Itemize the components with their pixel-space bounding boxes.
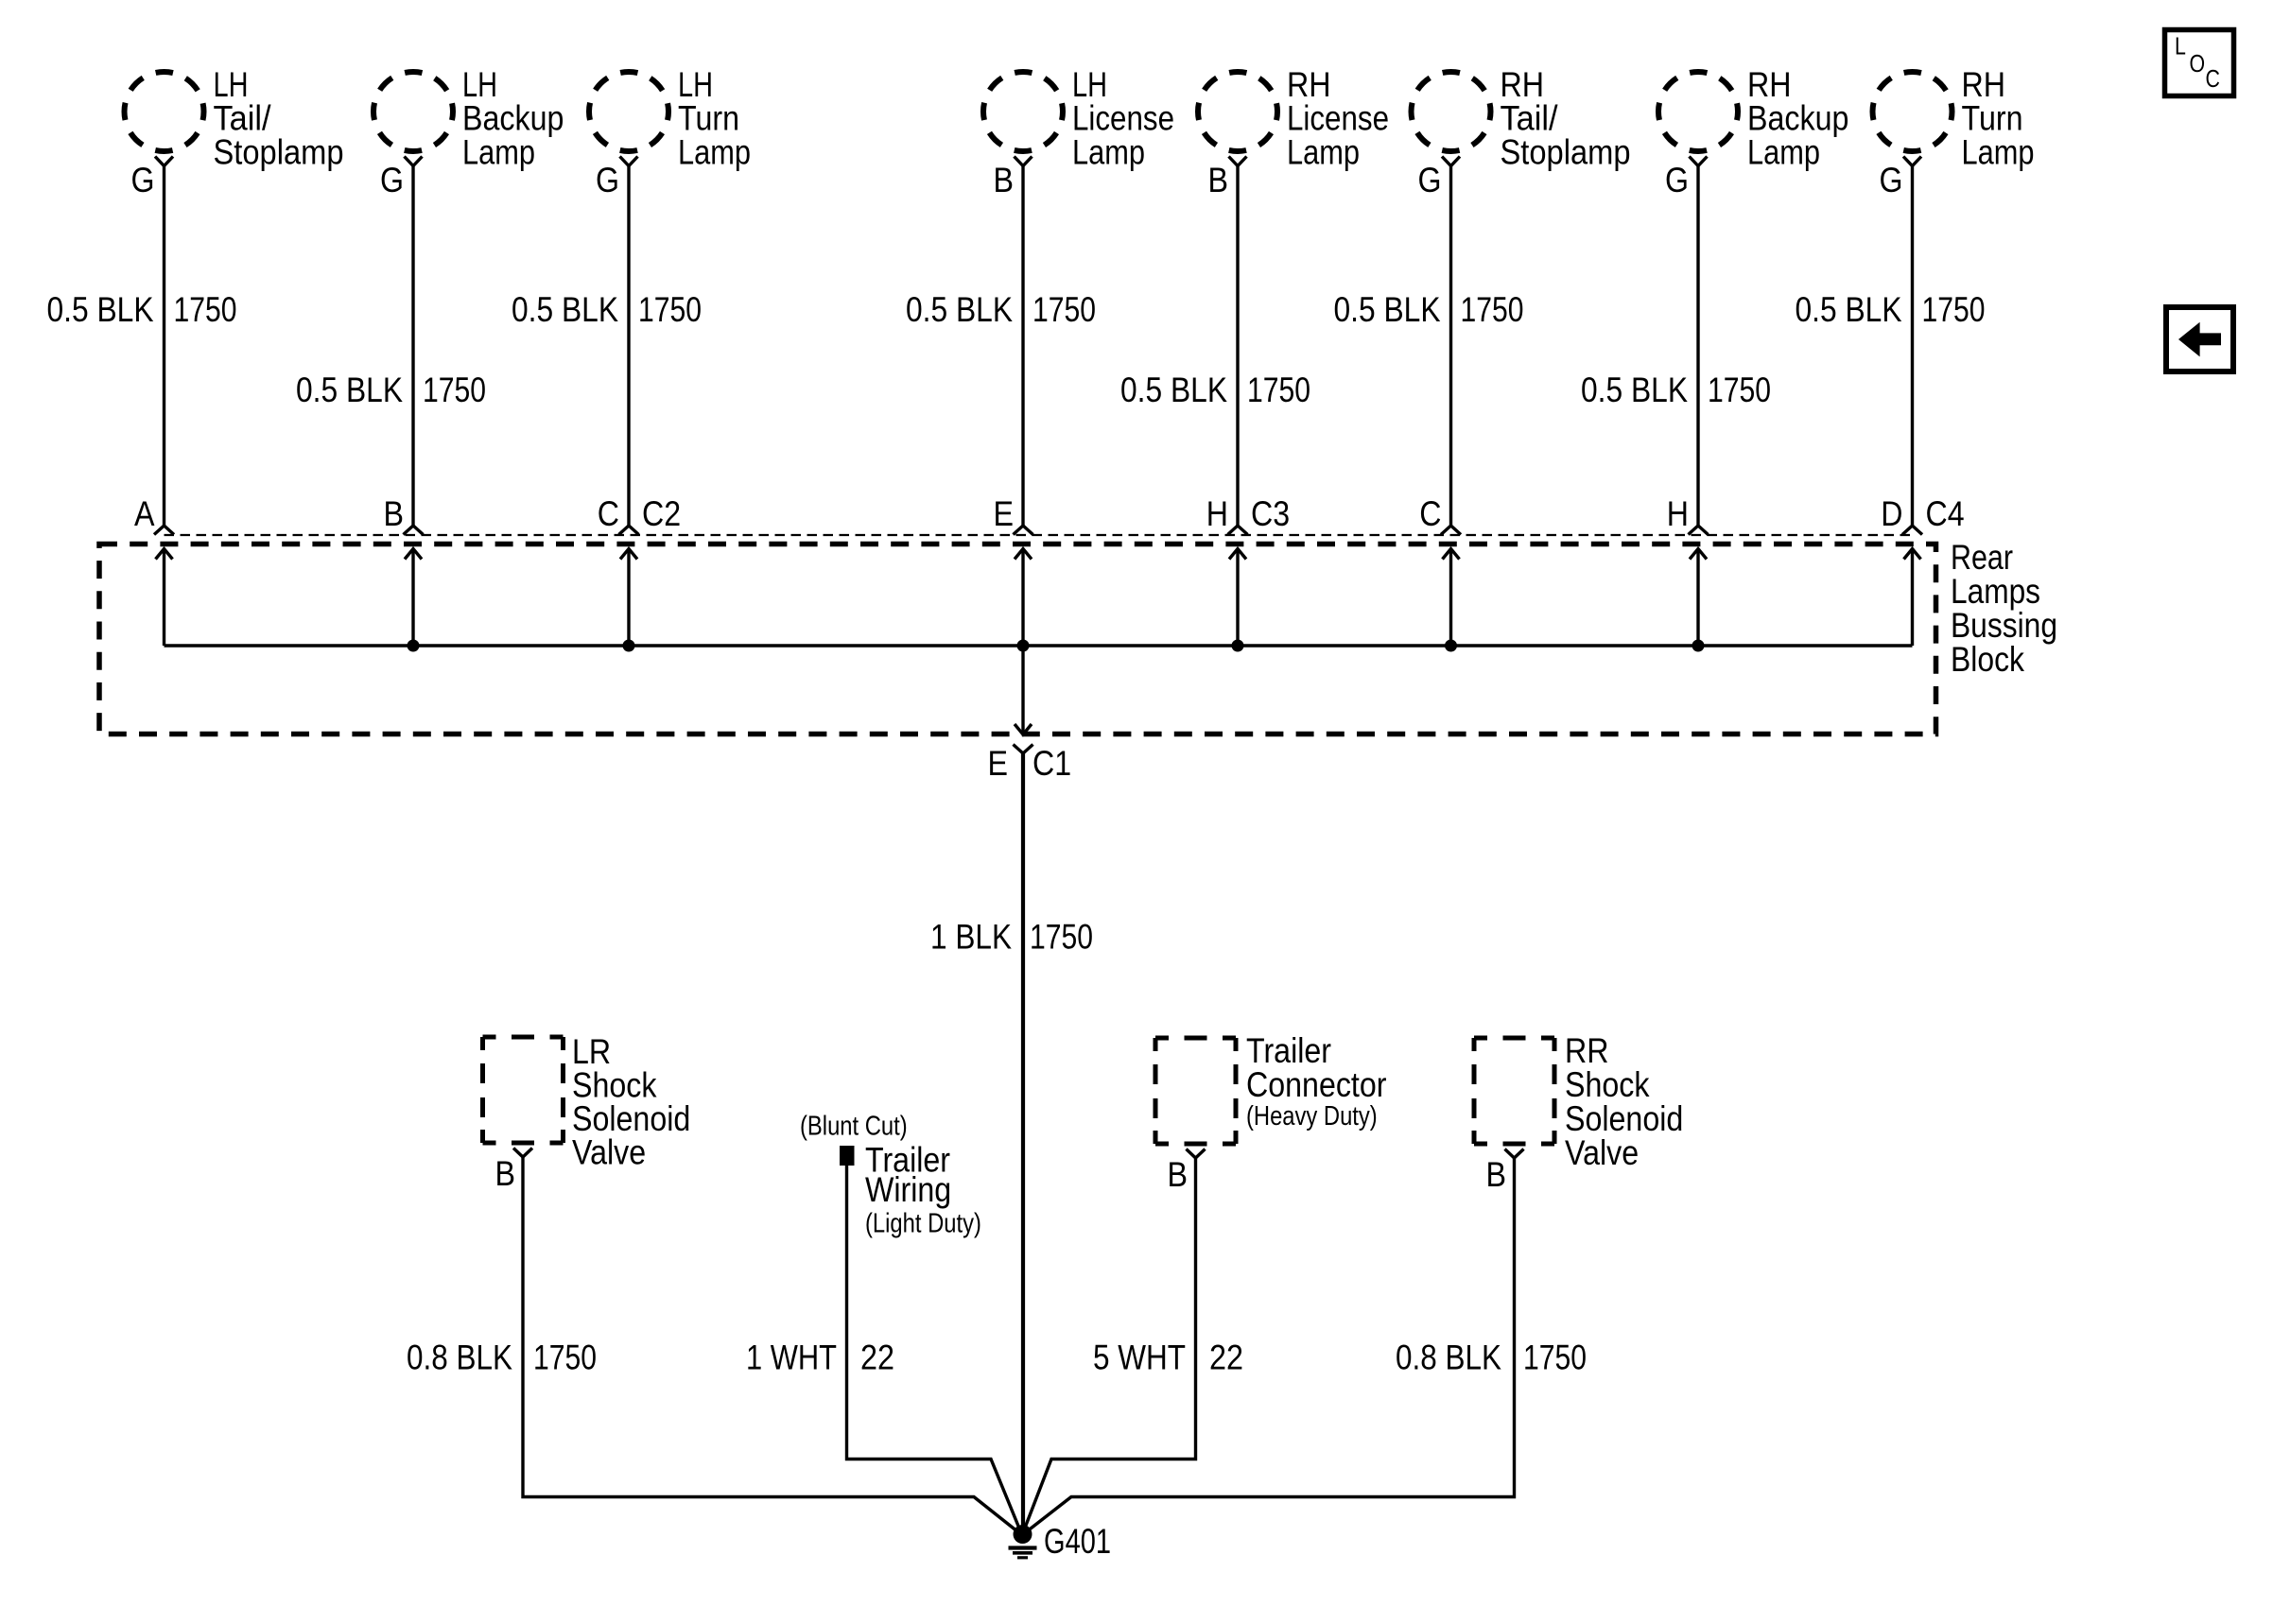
wire 0.5 BLK 1750 from RH Turn Lamp to bussing block pin D [1911, 166, 1914, 527]
pin letter G of RH Backup Lamp [1665, 161, 1689, 199]
lamp connector circle: LH Backup Lamp [373, 72, 453, 151]
svg-text:Lamp: Lamp [1287, 132, 1360, 171]
svg-text:H: H [1206, 494, 1228, 533]
wire 5 WHT 22 from Trailer Connector to G401 [1022, 1158, 1196, 1535]
wire 0.8 BLK 1750 from RR Shock to G401 [1022, 1158, 1515, 1535]
svg-text:B: B [495, 1154, 516, 1193]
male terminal arrow at block pin B [405, 549, 422, 647]
wire 0.5 BLK 1750 from LH Turn Lamp to bussing block pin C [627, 166, 630, 527]
svg-text:B: B [1486, 1155, 1507, 1194]
svg-text:1 WHT: 1 WHT [746, 1339, 837, 1377]
svg-text:0.8 BLK: 0.8 BLK [407, 1339, 512, 1377]
label: RR Shock Solenoid Valve [1565, 1031, 1683, 1172]
svg-text:C2: C2 [642, 494, 681, 533]
connector interface dashed line (C2/C3/C4 mating face) [165, 534, 1913, 536]
male terminal arrow at block pin H [1229, 549, 1246, 647]
pin letter G of LH Tail/Stoplamp [131, 161, 155, 199]
label: Rear Lamps Bussing Block [1951, 538, 2057, 679]
connector designator C3 [1251, 494, 1290, 533]
svg-text:1750: 1750 [1523, 1339, 1587, 1377]
svg-text:0.5 BLK: 0.5 BLK [906, 290, 1013, 329]
svg-text:(Blunt Cut): (Blunt Cut) [800, 1112, 908, 1142]
svg-text:Valve: Valve [572, 1133, 646, 1172]
svg-text:G: G [1880, 161, 1903, 199]
back-arrow navigation box [2166, 307, 2233, 371]
bussing block pin letter E [994, 494, 1015, 533]
bussing block pin letter H [1667, 494, 1689, 533]
pin terminal (female V) at RH License Lamp [1229, 157, 1247, 166]
svg-text:0.5 BLK: 0.5 BLK [1120, 371, 1227, 409]
ground symbol G401 [1009, 1548, 1037, 1558]
svg-text:H: H [1667, 494, 1689, 533]
pin letter B of LR Shock Solenoid Valve [495, 1154, 516, 1193]
svg-text:Lamp: Lamp [1072, 132, 1145, 171]
svg-text:1750: 1750 [174, 290, 237, 329]
junction dot on bus at pin C [623, 640, 635, 652]
svg-text:C: C [2206, 64, 2220, 93]
svg-text:G401: G401 [1044, 1522, 1111, 1561]
svg-text:Valve: Valve [1565, 1133, 1639, 1172]
svg-text:5 WHT: 5 WHT [1093, 1339, 1186, 1377]
bussing block pin letter C [598, 494, 619, 533]
svg-text:Stoplamp: Stoplamp [214, 132, 344, 171]
svg-text:Lamp: Lamp [462, 132, 535, 171]
male terminal arrow at block pin E [1015, 549, 1032, 647]
bussing block pin letter H [1206, 494, 1228, 533]
svg-text:O: O [2190, 49, 2206, 78]
svg-text:1750: 1750 [1032, 290, 1096, 329]
pin terminal (female V) at LH Turn Lamp [620, 157, 638, 166]
svg-text:0.5 BLK: 0.5 BLK [512, 290, 618, 329]
LR Shock Solenoid Valve dashed box [483, 1037, 564, 1143]
svg-text:Connector: Connector [1246, 1065, 1387, 1104]
internal wire from bus to block pin E (bottom) with arrow [1015, 646, 1032, 734]
pin letter B of Trailer Connector [1168, 1155, 1189, 1194]
svg-text:0.5 BLK: 0.5 BLK [296, 371, 403, 409]
wire 0.5 BLK 1750 from LH License Lamp to bussing block pin E [1021, 166, 1024, 527]
svg-text:1750: 1750 [1708, 371, 1771, 409]
wire label 0.5 BLK (circuit 1750) on wire C [1334, 290, 1524, 329]
Rear Lamps Bussing Block dashed outline [99, 544, 1936, 734]
lamp connector circle: RH Backup Lamp [1658, 72, 1738, 151]
pin letter E (C1) [988, 744, 1009, 783]
wire label 0.5 BLK (circuit 1750) on wire H [1581, 371, 1771, 409]
svg-text:Trailer: Trailer [1246, 1031, 1331, 1070]
bussing block pin letter B [384, 494, 405, 533]
wire label 0.5 BLK (circuit 1750) on wire C [512, 290, 702, 329]
wire 1 WHT 22 from Trailer Wiring to G401 [847, 1166, 1023, 1535]
svg-text:G: G [380, 161, 404, 199]
bussing block pin letter D [1881, 494, 1902, 533]
svg-text:Lamp: Lamp [678, 132, 751, 171]
svg-text:C: C [1419, 494, 1441, 533]
svg-text:22: 22 [860, 1339, 894, 1377]
wire 1 BLK 1750 from C1 to ground G401 [1021, 753, 1025, 1535]
male terminal arrow at block pin D [1904, 549, 1921, 647]
svg-text:B: B [384, 494, 405, 533]
svg-text:E: E [988, 744, 1009, 783]
pin terminal (female V) at RH Tail/Stoplamp [1442, 157, 1460, 166]
svg-text:22: 22 [1209, 1339, 1243, 1377]
lamp connector circle: LH Turn Lamp [589, 72, 668, 151]
female terminal V at RR Shock pin B [1505, 1149, 1524, 1159]
female terminal V at block pin E [1014, 526, 1033, 535]
junction dot on bus at pin E [1017, 640, 1030, 652]
LOC reference box [2165, 30, 2234, 96]
svg-text:1750: 1750 [1030, 918, 1093, 957]
svg-text:Rear: Rear [1951, 538, 2013, 577]
svg-text:0.5 BLK: 0.5 BLK [47, 290, 154, 329]
female terminal V at block bottom pin E (C1) [1014, 745, 1033, 754]
label: Trailer Wiring (Light Duty) [865, 1141, 981, 1239]
female terminal V at block pin B [404, 526, 424, 535]
svg-text:1750: 1750 [1461, 290, 1524, 329]
svg-text:Lamp: Lamp [1962, 132, 2035, 171]
svg-text:L: L [2175, 32, 2186, 60]
left arrow icon [2178, 322, 2221, 357]
label: RH Turn Lamp [1962, 65, 2035, 171]
bussing block pin letter A [134, 494, 155, 533]
svg-text:C1: C1 [1032, 744, 1071, 783]
svg-text:Solenoid: Solenoid [1565, 1099, 1683, 1138]
wire 0.5 BLK 1750 from RH Backup Lamp to bussing block pin H [1696, 166, 1699, 527]
svg-text:1 BLK: 1 BLK [930, 918, 1012, 957]
svg-text:0.5 BLK: 0.5 BLK [1796, 290, 1902, 329]
RR Shock Solenoid Valve dashed box [1474, 1038, 1554, 1144]
svg-text:G: G [131, 161, 155, 199]
pin letter G of RH Turn Lamp [1880, 161, 1903, 199]
female terminal V at block pin D [1902, 526, 1922, 535]
pin terminal (female V) at LH License Lamp [1015, 157, 1032, 166]
svg-text:Block: Block [1951, 640, 2024, 679]
svg-text:A: A [134, 494, 155, 533]
pin terminal (female V) at LH Backup Lamp [405, 157, 423, 166]
connector designator C4 [1926, 494, 1965, 533]
svg-text:0.8 BLK: 0.8 BLK [1396, 1339, 1501, 1377]
svg-text:Wiring: Wiring [865, 1170, 951, 1209]
female terminal V at block pin H [1228, 526, 1248, 535]
svg-text:Stoplamp: Stoplamp [1501, 132, 1631, 171]
wire label 1 WHT (circuit 22) [746, 1339, 894, 1377]
label: LR Shock Solenoid Valve [572, 1032, 690, 1172]
pin letter G of LH Turn Lamp [596, 161, 619, 199]
ground name G401 [1044, 1522, 1111, 1561]
svg-text:D: D [1881, 494, 1902, 533]
wire 0.8 BLK 1750 from LR Shock to G401 [523, 1157, 1022, 1535]
svg-text:Shock: Shock [1565, 1065, 1650, 1104]
svg-text:1750: 1750 [1247, 371, 1310, 409]
connector designator C2 [642, 494, 681, 533]
pin terminal (female V) at LH Tail/Stoplamp [155, 157, 173, 166]
internal bus wire of bussing block [165, 644, 1913, 647]
label: LH Turn Lamp [678, 65, 751, 171]
wire label 0.8 BLK (circuit 1750) right [1396, 1339, 1587, 1377]
blunt cut terminal (filled square) of Trailer Wiring [840, 1146, 855, 1166]
svg-text:E: E [994, 494, 1015, 533]
svg-text:G: G [1665, 161, 1689, 199]
lamp connector circle: RH Tail/Stoplamp [1412, 72, 1491, 151]
wire 0.5 BLK 1750 from LH Backup Lamp to bussing block pin B [411, 166, 414, 527]
lamp connector circle: RH License Lamp [1198, 72, 1277, 151]
wire 0.5 BLK 1750 from LH Tail/Stoplamp to bussing block pin A [163, 166, 165, 527]
lamp connector circle: LH Tail/Stoplamp [125, 72, 204, 151]
svg-text:1750: 1750 [533, 1339, 597, 1377]
label: LH Tail/Stoplamp [214, 65, 344, 171]
label: RH License Lamp [1287, 65, 1389, 171]
wire label 0.5 BLK (circuit 1750) on wire H [1120, 371, 1310, 409]
wire label 0.5 BLK (circuit 1750) on wire B [296, 371, 486, 409]
svg-text:B: B [994, 161, 1015, 199]
male terminal arrow at block pin C [620, 549, 637, 647]
svg-text:1750: 1750 [638, 290, 702, 329]
svg-text:B: B [1168, 1155, 1189, 1194]
male terminal arrow at block pin A [156, 549, 173, 647]
svg-text:(Light Duty): (Light Duty) [865, 1209, 981, 1239]
svg-text:RR: RR [1565, 1031, 1609, 1070]
pin letter B of LH License Lamp [994, 161, 1015, 199]
pin letter G of LH Backup Lamp [380, 161, 404, 199]
male terminal arrow at block pin C [1443, 549, 1460, 647]
junction dot on bus at pin C [1445, 640, 1457, 652]
female terminal V at LR Shock pin B [513, 1149, 532, 1158]
svg-text:G: G [1418, 161, 1442, 199]
label: LH License Lamp [1072, 65, 1174, 171]
label: LH Backup Lamp [462, 65, 564, 171]
label: RH Tail/Stoplamp [1501, 65, 1631, 171]
svg-text:Lamp: Lamp [1747, 132, 1820, 171]
LOC letters [2175, 32, 2220, 94]
svg-text:0.5 BLK: 0.5 BLK [1334, 290, 1441, 329]
svg-text:1750: 1750 [423, 371, 486, 409]
wire label 5 WHT (circuit 22) [1093, 1339, 1243, 1377]
pin terminal (female V) at RH Backup Lamp [1690, 157, 1708, 166]
svg-text:C3: C3 [1251, 494, 1290, 533]
wire 0.5 BLK 1750 from RH License Lamp to bussing block pin H [1236, 166, 1239, 527]
label: RH Backup Lamp [1747, 65, 1848, 171]
lamp connector circle: LH License Lamp [983, 72, 1063, 151]
label: (Blunt Cut) [800, 1112, 908, 1142]
pin letter G of RH Tail/Stoplamp [1418, 161, 1442, 199]
wire label 0.5 BLK (circuit 1750) on wire D [1796, 290, 1986, 329]
svg-text:B: B [1208, 161, 1229, 199]
female terminal V at block pin A [154, 526, 174, 535]
bussing block pin letter C [1419, 494, 1441, 533]
pin letter B of RR Shock Solenoid Valve [1486, 1155, 1507, 1194]
lamp connector circle: RH Turn Lamp [1873, 72, 1952, 151]
ground junction dot at G401 [1014, 1525, 1032, 1544]
pin letter B of RH License Lamp [1208, 161, 1229, 199]
svg-text:G: G [596, 161, 619, 199]
wire label 0.5 BLK (circuit 1750) on wire E [906, 290, 1096, 329]
pin terminal (female V) at RH Turn Lamp [1903, 157, 1921, 166]
svg-text:(Heavy Duty): (Heavy Duty) [1246, 1101, 1378, 1132]
svg-text:C: C [598, 494, 619, 533]
junction dot on bus at pin B [408, 640, 420, 652]
svg-text:Bussing: Bussing [1951, 606, 2057, 645]
label: Trailer Connector (Heavy Duty) [1246, 1031, 1387, 1132]
male terminal arrow at block pin H [1690, 549, 1707, 647]
svg-text:Lamps: Lamps [1951, 572, 2040, 611]
wire label 1 BLK (circuit 1750) [930, 918, 1093, 957]
female terminal V at block pin C [1441, 526, 1461, 535]
female terminal V at block pin C [619, 526, 639, 535]
svg-text:0.5 BLK: 0.5 BLK [1581, 371, 1688, 409]
Trailer Connector dashed box [1155, 1038, 1236, 1144]
svg-text:C4: C4 [1926, 494, 1965, 533]
junction dot on bus at pin H [1232, 640, 1244, 652]
female terminal V at block pin H [1689, 526, 1709, 535]
svg-text:1750: 1750 [1922, 290, 1986, 329]
wire 0.5 BLK 1750 from RH Tail/Stoplamp to bussing block pin C [1449, 166, 1452, 527]
female terminal V at Trailer Connector pin B [1187, 1149, 1206, 1159]
wire label 0.5 BLK (circuit 1750) on wire A [47, 290, 237, 329]
wire label 0.8 BLK (circuit 1750) left [407, 1339, 597, 1377]
junction dot on bus at pin H [1692, 640, 1705, 652]
connector designator C1 [1032, 744, 1071, 783]
